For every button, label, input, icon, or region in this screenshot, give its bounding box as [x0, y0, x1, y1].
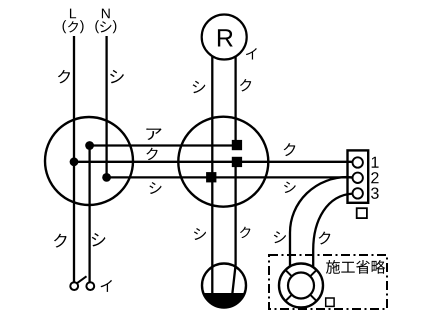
construction-omitted text [326, 260, 340, 274]
label ku line2 right [284, 143, 296, 156]
wire lamp right (black) [232, 162, 235, 293]
connector square 1 [232, 140, 242, 150]
label ku curve [319, 231, 331, 244]
wire L (black) from source to switch [73, 36, 75, 282]
label shi on N wire [110, 70, 124, 83]
junction box left [45, 117, 133, 205]
label ku lamp right [240, 227, 250, 238]
label shi curve [274, 231, 286, 243]
node N label [102, 9, 110, 19]
junction dot 3 [102, 173, 111, 182]
label ku lower L wire [54, 234, 67, 248]
terminal 2 [353, 173, 363, 183]
fixture spokes [310, 270, 316, 276]
connector square 3 [206, 172, 216, 182]
small square in omitted box [326, 298, 334, 306]
wire R left (white) down to lamp [211, 56, 213, 294]
label shi on return wire [92, 233, 106, 246]
wire N (white) from source to junction dot [105, 36, 107, 177]
terminal block body [348, 150, 369, 202]
construction-omitted dashed box [269, 255, 387, 309]
label a (red) [146, 128, 161, 140]
wire switch return [88, 146, 90, 283]
wire black curve from fixture to terminal 3 [313, 194, 353, 268]
wire black line2 [74, 161, 353, 163]
switch terminal right [86, 282, 94, 290]
device R circle [202, 15, 247, 60]
fixture inner circle [288, 273, 314, 299]
label i (R) [246, 48, 257, 60]
wire white curve from fixture to terminal 2 [290, 177, 353, 267]
small square under terminal block [357, 208, 367, 218]
junction box middle [178, 117, 268, 207]
label shi lamp left [194, 228, 206, 240]
junction dot 1 [85, 141, 94, 150]
label shi line3 left [149, 182, 161, 194]
label shi R left [193, 81, 206, 93]
fixture outer circle [279, 264, 323, 308]
wire red line1 [90, 144, 237, 146]
switch blade [77, 276, 87, 283]
label ku on L wire [58, 70, 70, 83]
terminal 1 [353, 157, 363, 167]
connector square 2 [232, 157, 242, 167]
terminal 3 [353, 188, 363, 198]
switch terminal left [70, 282, 78, 290]
junction dot 2 [70, 157, 79, 166]
label ku R right [240, 79, 251, 91]
lamp circle [202, 264, 246, 308]
wire R right (black) upper [234, 56, 236, 145]
label shi line3 right [284, 182, 296, 193]
label ku line2 left [146, 148, 157, 160]
node L label [70, 9, 76, 19]
terminal labels 1 2 3 [372, 157, 379, 168]
lamp filled segment [204, 294, 245, 308]
label i (switch) [101, 280, 112, 292]
wire white line3 [107, 176, 353, 178]
